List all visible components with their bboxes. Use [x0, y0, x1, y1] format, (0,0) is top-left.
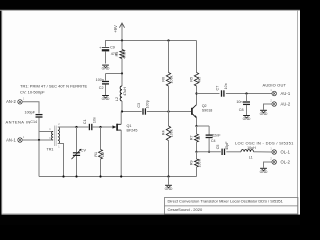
wire C1 to Q1 gate	[93, 126, 114, 128]
capacitor C9 47u	[99, 40, 117, 64]
svg-text:OL-1: OL-1	[281, 149, 291, 154]
capacitor C1 10n	[83, 117, 97, 130]
resistor R5 4k7	[189, 41, 201, 105]
node R3/L2/C2	[121, 72, 123, 74]
capacitor C7 10n	[215, 83, 228, 96]
svg-text:45pF: 45pF	[225, 141, 229, 150]
wire drain to C3	[122, 111, 142, 113]
svg-text:GND: GND	[243, 117, 251, 121]
connector OL-2	[270, 158, 290, 165]
svg-text:R6: R6	[161, 77, 165, 82]
resistor R9 100R	[190, 152, 202, 177]
wire AN-2 to C14	[22, 102, 39, 114]
capacitor C14 100pF	[25, 111, 43, 140]
wire to TR1 primary top	[39, 131, 53, 133]
capacitor C4 22nF	[206, 126, 222, 152]
svg-text:R9: R9	[190, 160, 194, 165]
junction Q1 source	[120, 175, 122, 177]
transistor Q2 S9018	[192, 104, 212, 126]
svg-text:10uH: 10uH	[247, 146, 256, 150]
svg-text:GND: GND	[260, 170, 268, 174]
svg-text:AN-2: AN-2	[6, 99, 16, 104]
capacitor C8 10n	[236, 94, 250, 116]
wire C7 to AU-1	[226, 93, 272, 95]
svg-text:470R: 470R	[123, 50, 127, 59]
svg-text:TR1: PRIM 4T / SEC 40T N FERRI: TR1: PRIM 4T / SEC 40T N FERRITE	[20, 84, 88, 89]
node collector/C7	[195, 92, 197, 94]
ground at AU-2	[260, 110, 268, 116]
svg-text:Q1: Q1	[127, 124, 132, 128]
wire emitter to C4	[197, 125, 210, 127]
svg-text:AU-2: AU-2	[281, 101, 291, 106]
svg-text:10n: 10n	[92, 117, 96, 123]
svg-text:Q2: Q2	[202, 104, 207, 108]
svg-text:C14: C14	[30, 120, 37, 124]
svg-text:ANTENA IN: ANTENA IN	[6, 119, 31, 124]
resistor R4 100k	[161, 112, 173, 177]
emitter node	[195, 125, 197, 127]
node drain/L2/C3	[121, 110, 123, 112]
svg-text:AU-1: AU-1	[281, 91, 291, 96]
svg-text:C2: C2	[99, 86, 104, 90]
svg-text:10n: 10n	[224, 83, 228, 89]
svg-text:S9018: S9018	[202, 108, 213, 112]
svg-text:GND: GND	[102, 67, 110, 71]
svg-text:GND: GND	[165, 187, 173, 191]
wire TR1 secondary to C1	[58, 126, 89, 128]
svg-text:AN-1: AN-1	[6, 137, 16, 142]
JFET Q1 BF245	[113, 112, 138, 177]
node C8 tap	[245, 92, 247, 94]
connector AN-2	[6, 98, 25, 105]
capacitor C5 45pF	[216, 141, 229, 155]
svg-text:4k7: 4k7	[197, 77, 201, 83]
schematic sheet	[2, 10, 301, 215]
junction ground stub	[167, 175, 169, 177]
junction R1	[99, 175, 101, 177]
svg-text:L1: L1	[249, 155, 253, 159]
connector AN-1	[6, 136, 25, 143]
resistor R7 1k	[190, 126, 201, 152]
junction rail/R6	[167, 39, 169, 41]
svg-text:R5: R5	[189, 77, 193, 82]
svg-text:TR1: TR1	[47, 147, 54, 151]
node C4 bottom	[208, 151, 210, 153]
wire collector to C7	[197, 93, 220, 95]
wire C3 to Q2 base	[147, 111, 191, 113]
svg-text:100R: 100R	[197, 158, 201, 167]
svg-text:C1: C1	[83, 119, 87, 124]
resistor R1 1M	[94, 127, 105, 177]
title block	[165, 198, 298, 215]
node R6/R4/base	[167, 110, 169, 112]
wire AN-1 to TR1	[22, 139, 53, 141]
svg-text:1M: 1M	[101, 152, 105, 157]
svg-text:CV: CV	[81, 149, 87, 153]
svg-text:C7: C7	[215, 86, 219, 91]
ground below C2	[102, 96, 110, 102]
transformer TR1	[47, 123, 61, 151]
node R1 tap	[99, 126, 101, 128]
junction CV	[75, 175, 77, 177]
ground below C8	[243, 116, 251, 122]
wire AU-2 to ground	[264, 104, 273, 110]
svg-text:L2: L2	[115, 97, 119, 101]
wire OL-2 to ground	[264, 162, 273, 168]
svg-text:100p: 100p	[146, 100, 150, 108]
svg-text:10n: 10n	[236, 100, 242, 104]
svg-text:22nF: 22nF	[212, 133, 221, 137]
svg-text:CesarSound - 2020: CesarSound - 2020	[168, 207, 203, 212]
wire L1 to OL-1	[254, 151, 273, 153]
ground rail	[39, 176, 197, 178]
junction AN-1/C14/gnd	[38, 139, 40, 141]
junction sec bottom	[62, 175, 64, 177]
wire R3 to C2	[106, 73, 123, 75]
svg-text:C9: C9	[110, 45, 115, 49]
svg-text:LOC OSC IN - DDS / SI5351: LOC OSC IN - DDS / SI5351	[235, 140, 294, 145]
svg-text:AUDIO OUT: AUDIO OUT	[263, 82, 287, 87]
svg-text:100k: 100k	[169, 75, 173, 83]
svg-text:C5: C5	[216, 145, 220, 150]
svg-text:R3: R3	[115, 52, 119, 57]
svg-text:CV: 10-500pF: CV: 10-500pF	[20, 89, 45, 94]
top rail +9V net	[106, 40, 197, 42]
connector AU-1	[270, 89, 290, 96]
wire LO injection net	[197, 151, 221, 153]
svg-text:C8: C8	[239, 108, 244, 112]
ground below C9	[102, 65, 110, 71]
connector AU-2	[270, 100, 290, 107]
svg-text:R7: R7	[190, 135, 194, 140]
svg-text:R4: R4	[161, 130, 165, 135]
svg-text:R1: R1	[94, 152, 98, 157]
wire TR1 secondary bottom to ground rail	[58, 144, 64, 177]
resistor R3 470R	[115, 41, 127, 74]
svg-text:C3: C3	[137, 103, 141, 108]
sheet border frame	[0, 9, 300, 11]
inductor L2 47uH	[115, 74, 127, 112]
svg-text:GND: GND	[102, 97, 110, 101]
capacitor C3 100p	[137, 100, 150, 115]
ground symbol on rail	[168, 177, 170, 185]
variable capacitor CV	[72, 127, 87, 177]
connector OL-1	[270, 148, 290, 155]
node CV tap	[75, 126, 77, 128]
resistor R6 100k	[161, 41, 173, 112]
inductor L1 10uH	[241, 146, 256, 159]
svg-text:BF245: BF245	[127, 128, 138, 132]
+9V supply arrow	[113, 23, 125, 40]
capacitor C2 100n	[96, 74, 109, 96]
node R7/R9 junction	[195, 151, 197, 153]
svg-text:Direct Conversion Transistor M: Direct Conversion Transistor Mixer Local…	[168, 199, 284, 204]
svg-text:100pF: 100pF	[25, 111, 36, 115]
svg-text:47uH: 47uH	[123, 87, 127, 96]
ground at OL-2	[260, 168, 268, 174]
svg-text:OL-2: OL-2	[281, 159, 291, 164]
svg-text:C4: C4	[211, 139, 216, 143]
svg-text:GND: GND	[260, 112, 268, 116]
svg-text:+9V: +9V	[113, 25, 118, 33]
svg-text:100n: 100n	[96, 78, 104, 82]
junction rail/R3	[121, 39, 123, 41]
svg-text:1k: 1k	[197, 136, 201, 140]
svg-text:100k: 100k	[169, 129, 173, 137]
